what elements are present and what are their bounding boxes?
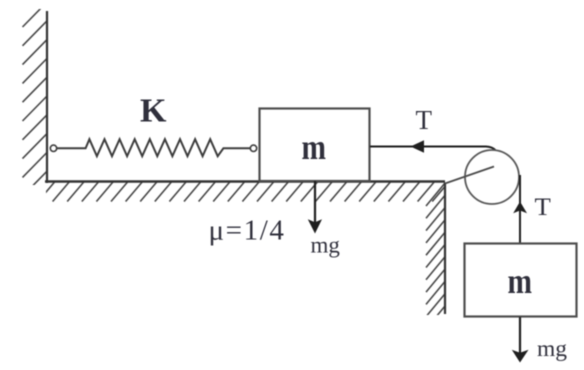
svg-text:m: m	[302, 127, 327, 167]
svg-text:μ=1/4: μ=1/4	[209, 215, 286, 247]
svg-text:mg: mg	[311, 233, 341, 258]
svg-text:T: T	[535, 192, 552, 221]
svg-text:K: K	[140, 93, 167, 130]
svg-text:mg: mg	[537, 336, 567, 362]
svg-text:T: T	[416, 105, 433, 135]
svg-text:m: m	[508, 261, 533, 301]
